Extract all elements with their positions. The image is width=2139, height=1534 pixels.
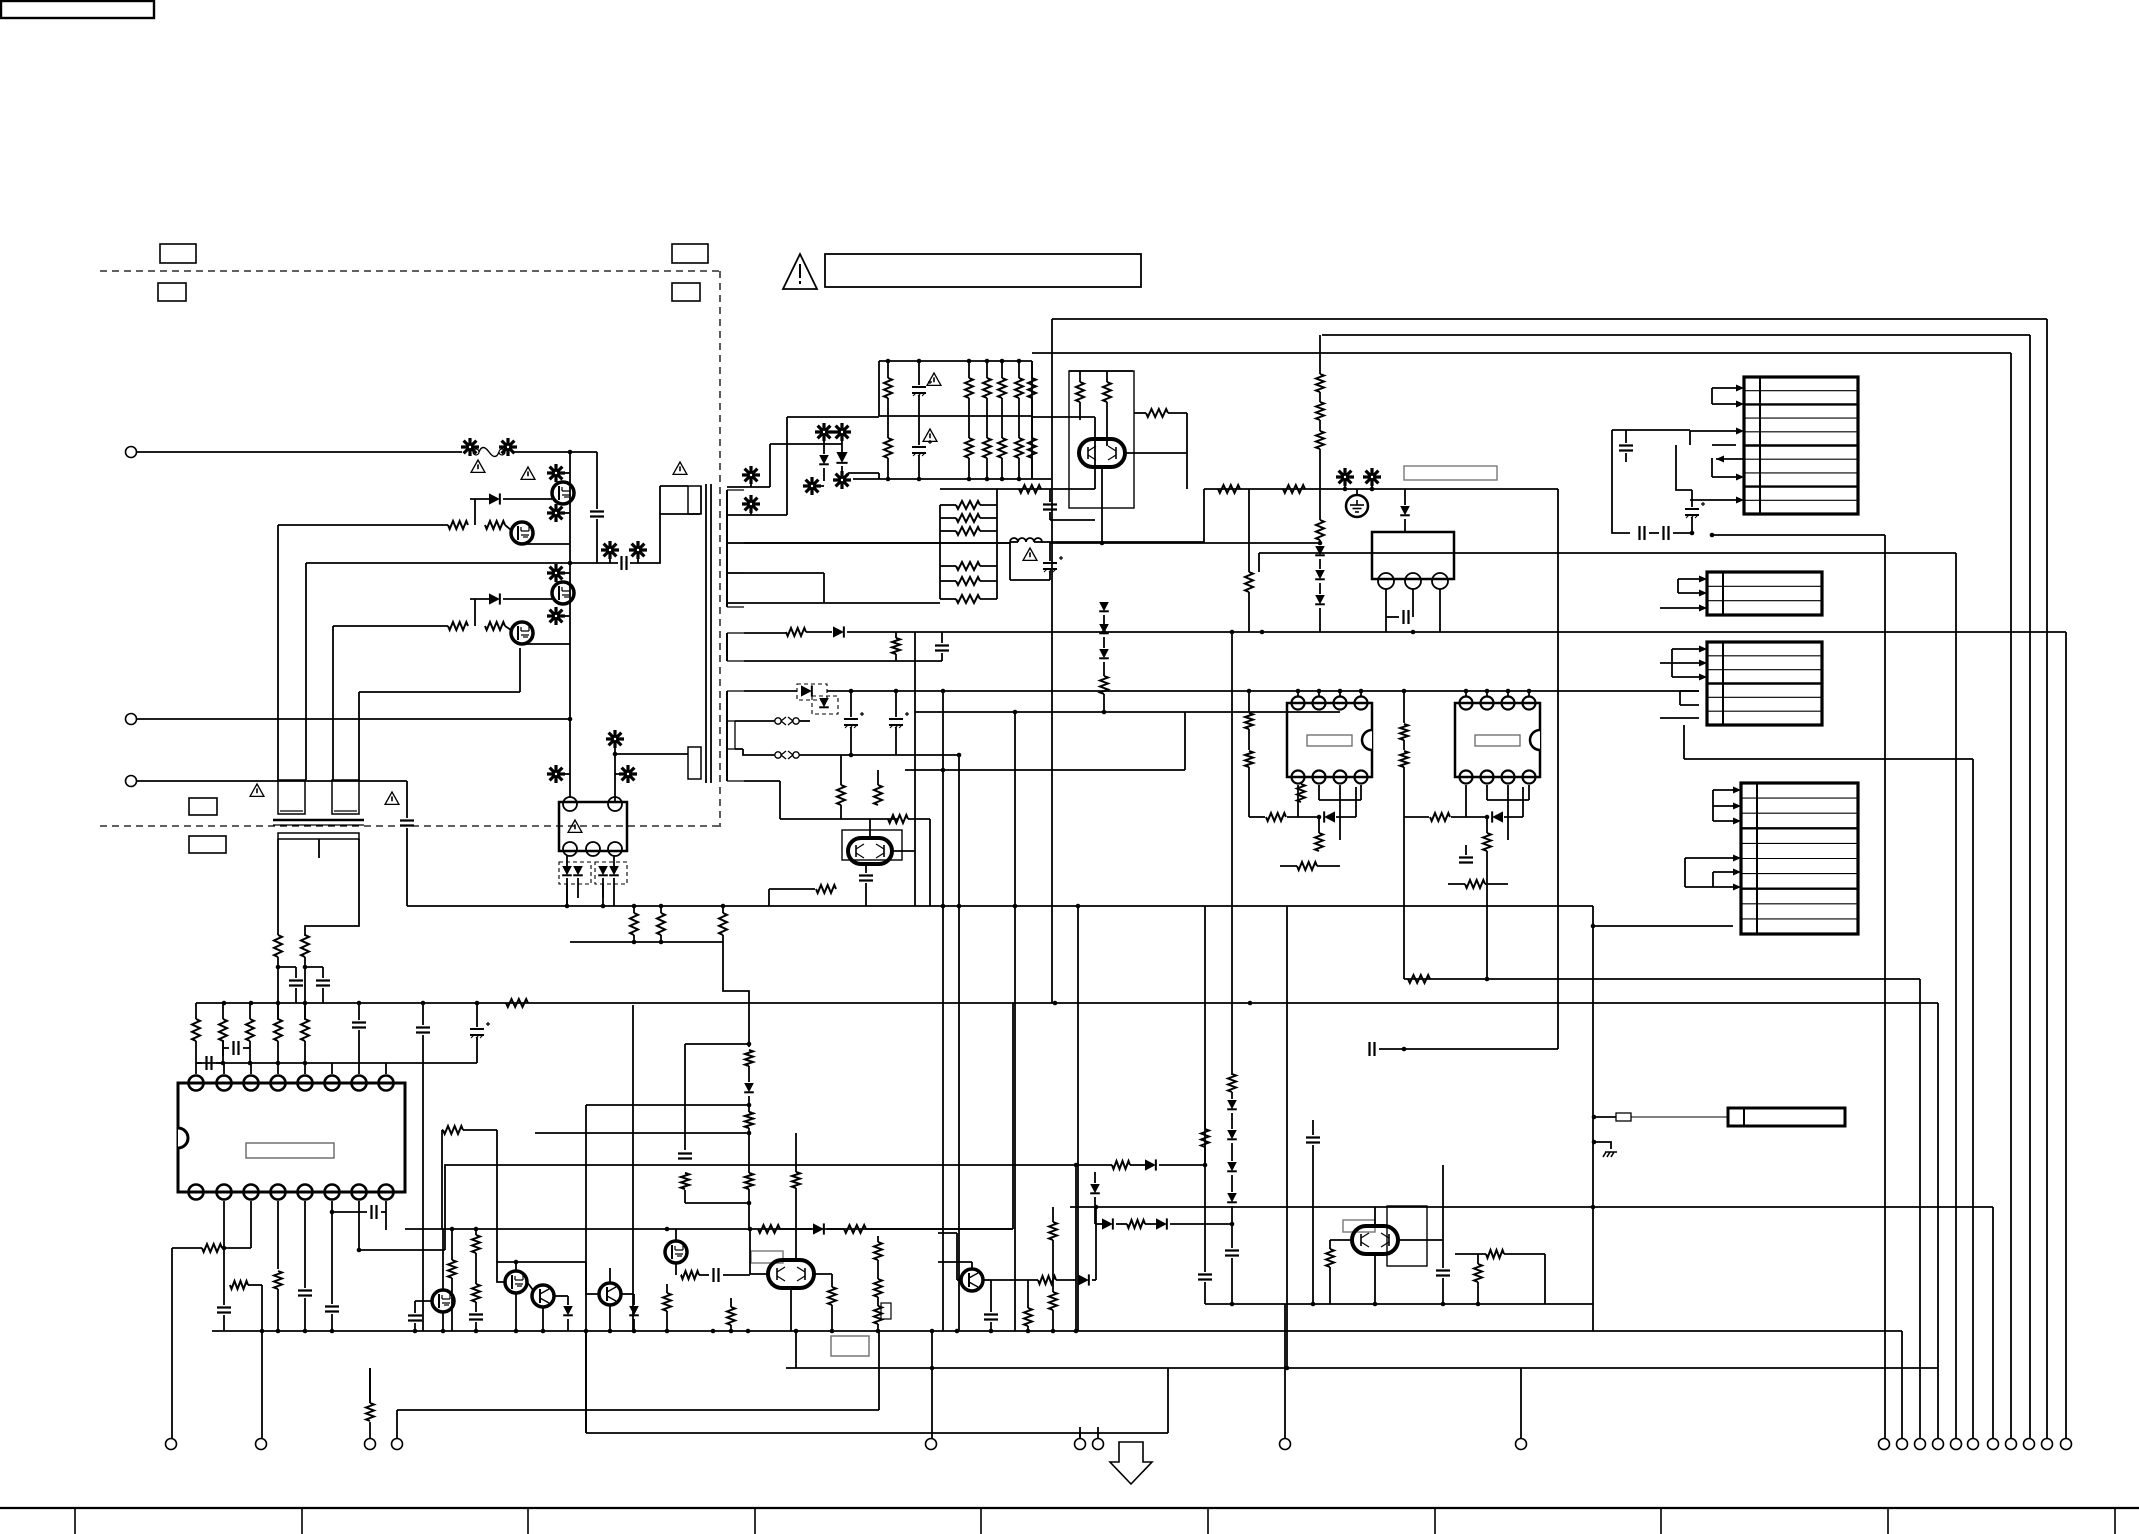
resistor Ra3 — [719, 906, 727, 942]
snub res C — [745, 1173, 753, 1189]
cap x476 — [469, 1302, 483, 1331]
wire right col x2011 — [2010, 353, 2012, 1438]
zener x1095 — [1090, 1172, 1100, 1224]
wire Q21 top — [497, 1130, 586, 1282]
wire y535 — [1710, 533, 1885, 538]
wire pin8 down — [385, 1212, 387, 1230]
star on tap y515 — [742, 495, 760, 515]
wire y1003 gap note — [195, 1002, 197, 1004]
title block box top-left — [1, 1, 154, 18]
bank resistor bottom 3 — [983, 416, 991, 479]
wire relay pin1 down — [1385, 589, 1387, 632]
chain x1104 res — [1100, 662, 1108, 712]
rail above IC y1003 — [196, 1001, 1938, 1006]
wire relay pin2 down — [1412, 589, 1414, 617]
res x1053 a — [1049, 1207, 1057, 1262]
footer tick 2 — [301, 1508, 303, 1534]
bank right edge — [1031, 361, 1033, 479]
res pair below a — [837, 755, 845, 805]
IC pin4 wire — [277, 1201, 279, 1269]
cap y1049 — [1370, 1042, 1381, 1056]
footer tick 6 — [1207, 1508, 1209, 1534]
res snub h — [1019, 485, 1041, 493]
wire sec top tap y543 — [727, 542, 1010, 544]
dual transistor Q10 — [848, 838, 892, 864]
vert x1078 — [1077, 906, 1079, 1331]
ladder resistor 5 — [940, 577, 997, 585]
wire Q10 top — [869, 819, 871, 838]
spark gap row top — [735, 717, 810, 725]
bottom terminal pin 6 — [1968, 1439, 1979, 1450]
diode row2 — [806, 626, 915, 637]
cap Q24 — [699, 1268, 750, 1282]
CN1 pin arrows — [1716, 385, 1744, 504]
gate diode D2 — [489, 593, 500, 604]
gate resistor R4 — [485, 622, 505, 630]
warning near T2 — [250, 784, 264, 796]
res on y489 b — [1283, 485, 1305, 493]
chain x1320 z1 — [1315, 540, 1325, 555]
ecap CN1 — [1685, 490, 1705, 533]
bank top rail — [879, 359, 1032, 364]
star on mid rail b — [629, 541, 647, 563]
res x1205 — [1201, 1120, 1209, 1165]
IC1 top pins — [189, 1076, 394, 1091]
zener pair box B — [595, 856, 627, 906]
npn Q26 — [961, 1269, 983, 1291]
wire Q30 bottom — [1374, 1254, 1376, 1304]
vert x1593 — [1592, 906, 1594, 1331]
res y1229 b — [827, 1225, 1013, 1233]
vert x1489 — [1486, 851, 1488, 979]
star right of bus — [615, 765, 637, 783]
gate resistor R2 — [485, 521, 505, 529]
bank resistor bottom 5 — [1015, 416, 1023, 479]
wire y1165 note — [1074, 1163, 1079, 1168]
wire y1390 low — [1901, 1331, 1903, 1438]
res h row PC2 b — [1448, 880, 1508, 888]
vert x1920 — [1919, 979, 1921, 1438]
PC1 top pin wires — [1298, 691, 1361, 696]
bottom terminal pin 4 — [1933, 1439, 1944, 1450]
ladder resistor 1 — [940, 501, 997, 509]
res x878 b — [874, 1260, 882, 1297]
PC10 pin2 — [608, 797, 622, 811]
snub wire A — [748, 1066, 750, 1082]
cap IC a — [352, 1003, 366, 1063]
snub res A — [745, 1050, 753, 1066]
PC2 top pin wires — [1466, 691, 1529, 696]
wire pin2 branch — [261, 1285, 263, 1438]
T1 secondary winding 1 — [727, 490, 744, 607]
ladder resistor 3 — [940, 527, 997, 535]
ecap C L1 — [1010, 542, 1063, 580]
bank resistor bottom 1 — [884, 416, 892, 479]
res Q30 b — [1474, 1254, 1482, 1304]
cap x1205 — [1198, 1275, 1212, 1305]
vert x1015 — [1014, 712, 1016, 1331]
IC pin stubs top — [196, 1063, 386, 1074]
sec row1 dashed diode — [797, 684, 827, 700]
chain x1104 z2 — [1099, 624, 1109, 633]
label box upper-right of boundary — [672, 244, 708, 263]
wire row1 — [744, 689, 1699, 694]
terminal earth — [126, 776, 137, 787]
wire y417 ext — [1032, 416, 1095, 418]
wire x930 from res — [929, 819, 931, 906]
cap Q26 — [983, 1280, 998, 1331]
ladder resistor 2 — [940, 514, 997, 522]
cap IC b — [416, 1003, 430, 1063]
relay pin1 — [1378, 573, 1394, 589]
snub wire bottom — [685, 1190, 749, 1203]
CN4 pin arrows — [1733, 787, 1741, 891]
star below DB — [833, 471, 851, 489]
wire Q50 top — [1069, 370, 1133, 372]
chain2 z3 — [1227, 1143, 1237, 1171]
res h x452 y1130 — [442, 1126, 497, 1229]
star pair A — [815, 423, 851, 444]
res ladder IC 5 — [301, 1003, 309, 1063]
footer tick 8 — [1660, 1508, 1662, 1534]
cap x1313 — [1306, 1120, 1320, 1143]
res Q24 gate — [676, 1263, 699, 1279]
cap Q20 — [408, 1301, 432, 1331]
relay RY1 box — [1372, 532, 1454, 579]
spark gap row bottom — [735, 749, 896, 759]
cap below IC a — [217, 1285, 231, 1331]
vert x1232 chain — [1231, 632, 1233, 1075]
zener relay — [1400, 489, 1410, 532]
vert x915 low — [914, 712, 916, 906]
res Q50 c — [1134, 409, 1187, 417]
terminal AC N — [126, 714, 137, 725]
vert x1287 — [1286, 906, 1288, 1368]
CN3 pin arrows — [1699, 646, 1707, 681]
caps h CN1 — [1640, 526, 1695, 540]
label box near T2 lower — [189, 836, 226, 853]
IC1 label — [246, 1143, 334, 1158]
wire T3 feed — [369, 1368, 371, 1403]
vert x1938 — [1937, 1003, 1939, 1438]
wire x1095 up — [1094, 417, 1096, 489]
chain x1104 z3 — [1099, 637, 1109, 658]
PC2 bottom wires — [1466, 785, 1529, 840]
ecap row1 a — [844, 691, 864, 755]
footer tick 1 — [74, 1508, 76, 1534]
wire gate feed Q2 — [278, 525, 511, 530]
res below PC2 v — [1483, 815, 1491, 851]
T1 primary lower tap — [613, 752, 688, 757]
wire Q23 down — [609, 1305, 611, 1331]
T1 primary winding lower — [688, 747, 701, 779]
IC pin7 wire — [357, 1201, 362, 1252]
zener pair box A — [559, 856, 591, 906]
ladder resistor 4 — [940, 562, 997, 570]
caution note box — [825, 254, 1141, 287]
wire earth terminal — [137, 780, 407, 782]
res y979 — [1408, 975, 1430, 983]
res on y1003 — [506, 999, 528, 1007]
vert x943 — [942, 691, 944, 1331]
cap Q10 — [859, 864, 873, 906]
PC10 pin5 — [608, 842, 622, 856]
bottom terminal pin 9 — [2024, 1439, 2035, 1450]
mosfet Q2 — [511, 522, 533, 544]
star relay a — [1336, 468, 1354, 489]
bottom terminal pin 5 — [1951, 1439, 1962, 1450]
res ladder IC 2 — [219, 1003, 227, 1063]
star at T1 tap — [606, 730, 624, 754]
rail y489 left — [940, 488, 1095, 490]
bank ecap top — [912, 361, 932, 416]
chain x1320 res — [1316, 489, 1324, 540]
inductor L1 — [1010, 538, 1050, 542]
down arrow symbol — [1110, 1442, 1152, 1484]
rail mid switch — [306, 561, 618, 566]
bank bottom rail — [853, 477, 1051, 482]
mosfet Q1 — [552, 482, 574, 504]
mosfet Q4 — [511, 622, 533, 644]
rail y1229 — [405, 1227, 1013, 1232]
wire label drop — [795, 1331, 797, 1368]
battery holder BT1 — [1728, 1108, 1845, 1126]
res Q24 down — [663, 1284, 671, 1331]
terminal T4 — [392, 1439, 403, 1450]
terminal T2 — [256, 1439, 267, 1450]
wire left feed 3 — [332, 626, 334, 780]
cap row2 — [896, 632, 949, 661]
dual transistor Q30 — [1352, 1226, 1398, 1254]
star below DA — [803, 477, 824, 495]
chain x1320 tail — [1319, 608, 1321, 632]
CN2 pin wires — [1660, 579, 1699, 608]
T1 secondary winding 2 — [727, 633, 744, 661]
cap h below IC — [332, 1205, 386, 1219]
res h row PC1 b — [1280, 862, 1340, 870]
IC pin8 wire — [385, 1201, 387, 1212]
res Q30 h — [1455, 1250, 1545, 1304]
bank ecap bottom — [912, 416, 932, 479]
star on mid rail a — [601, 541, 619, 563]
jumper star right of fuse — [499, 438, 517, 456]
wire Q50 link — [1125, 452, 1187, 454]
star below Q1 — [547, 504, 570, 522]
bus drain vertical — [569, 452, 571, 719]
T2 primary winding A — [278, 780, 305, 814]
wire Q30 top — [1374, 1207, 1376, 1226]
wire pin7 right — [359, 1249, 445, 1251]
res diode row a — [1076, 1159, 1207, 1170]
wire Q26 col — [938, 1262, 972, 1269]
relay label box — [1404, 466, 1497, 480]
bottom terminal pin 2 — [1897, 1439, 1908, 1450]
vert x423 low — [422, 1063, 424, 1331]
gate resistor R3 — [448, 622, 468, 630]
wire right col x2030 — [2029, 335, 2031, 1438]
res x878 a — [874, 1236, 882, 1260]
wire D1 branch — [474, 499, 476, 525]
res pair below b — [874, 770, 882, 805]
label box near T2 upper — [189, 798, 217, 815]
CN4 bottom feed — [1591, 924, 1733, 929]
terminal T1 — [166, 1439, 177, 1450]
bus continue to opto — [569, 719, 571, 797]
vert x1956 — [1955, 553, 1957, 1438]
bottom terminal pin 7 — [1988, 1439, 1999, 1450]
wire y1427 — [586, 1331, 1168, 1438]
terminal mid1 — [926, 1331, 937, 1450]
wire Q25 base — [750, 1229, 768, 1274]
warning mark above Q area — [521, 467, 535, 479]
sub rail y942 — [570, 940, 723, 945]
vert x634 mid — [633, 941, 635, 943]
chain2 z2 — [1227, 1113, 1237, 1139]
res below PC1 v — [1315, 815, 1323, 851]
res top feed rail — [519, 1002, 521, 1004]
cross wire y632 — [915, 630, 2066, 635]
npn Q22 — [532, 1285, 554, 1307]
res x1249 — [1245, 489, 1253, 632]
T1 core — [706, 484, 711, 783]
resistor R std2 — [301, 935, 309, 957]
diode DB — [836, 444, 847, 473]
chain x1320 upper r2 — [1316, 392, 1324, 420]
res h PC1 — [1249, 787, 1356, 823]
mosfet Q20 — [432, 1229, 454, 1312]
zener DA — [819, 444, 829, 481]
chain2 cap — [1225, 1224, 1239, 1304]
T2 sec left lead — [277, 839, 279, 935]
wire Q26 base — [938, 1233, 961, 1280]
wire left horiz to Q4 row — [359, 648, 520, 692]
chain x1320 upper tail — [1319, 449, 1321, 489]
resistor R std1 — [274, 935, 282, 957]
bottom terminal pin 11 — [2061, 1439, 2072, 1450]
bank left edge — [878, 361, 880, 416]
vert x1052 — [1051, 319, 1053, 424]
chain x1320 z2 — [1315, 559, 1325, 579]
resistor Ra1 — [630, 906, 638, 942]
resistor ladder left rail — [939, 505, 941, 599]
PC1 bottom wires — [1298, 785, 1361, 840]
gate resistor R1 — [448, 521, 468, 529]
warning in PC10 — [568, 820, 582, 832]
earth symbol — [1346, 489, 1368, 517]
wire row3 bottom tap — [744, 781, 780, 819]
cap h IC small — [223, 1040, 250, 1056]
PC10 pin4 — [586, 842, 600, 856]
wire row3 bot to rail — [780, 818, 841, 820]
cap Q30 — [1436, 1271, 1450, 1305]
star below Q3 — [547, 607, 570, 625]
T1 secondary winding 3 — [727, 691, 744, 781]
vert x959 — [958, 755, 960, 1331]
wire Q10 right — [892, 850, 915, 852]
label box lower-left of boundary — [158, 283, 186, 301]
gate diode D1 — [489, 493, 500, 504]
IC pin6 wire — [330, 1201, 335, 1304]
vert x570 opto tail — [566, 884, 568, 906]
photocoupler PC2 — [1455, 697, 1540, 784]
jumper star left of fuse — [461, 438, 479, 456]
long wire y319 — [1052, 318, 2047, 320]
label box lower-right of boundary — [672, 283, 700, 301]
snub res D — [681, 1173, 689, 1189]
vert x1973 — [1972, 759, 1974, 1438]
res above T3 — [366, 1368, 374, 1421]
ladder resistor 6 — [940, 595, 997, 603]
res below Q25 — [727, 1298, 735, 1331]
vert x1076 — [1075, 1165, 1077, 1331]
wire left terminal drop — [171, 1248, 173, 1438]
wire left feed 1 — [277, 525, 279, 780]
connector CN3 — [1707, 642, 1822, 725]
wire to primary top — [630, 514, 700, 563]
wire y770 rail — [905, 712, 1185, 772]
snub res B — [745, 1112, 753, 1128]
gnd stub — [1592, 1140, 1611, 1149]
vert x586 — [585, 1105, 587, 1433]
vert x1404 — [1400, 691, 1408, 979]
ecap IC — [470, 1003, 490, 1063]
wire jog y942 — [723, 942, 749, 1047]
footer tick 3 — [527, 1508, 529, 1534]
vert x1313 — [1312, 1145, 1314, 1304]
res Q10 base — [769, 885, 836, 906]
res x452 — [448, 1229, 456, 1331]
wire tap y543 right — [1049, 542, 1051, 544]
res x476 b — [472, 1253, 480, 1302]
res below PC1 — [1297, 784, 1305, 802]
Q30 outline box — [1387, 1206, 1427, 1266]
wire y1304 — [1205, 1302, 1593, 1307]
vert x603 opto tail — [602, 884, 604, 906]
vert x1013 — [1012, 1003, 1014, 1229]
vert x1052 low — [1051, 424, 1053, 1003]
cap near CN1 — [1619, 430, 1633, 462]
wire Q50 right — [1186, 413, 1188, 489]
wire y632 left stub — [914, 632, 916, 712]
res row2 — [786, 628, 806, 636]
wire y543 to right — [1050, 541, 1322, 546]
bottom terminal pin 8 — [2006, 1439, 2017, 1450]
wire gate feed Q4 — [333, 626, 511, 630]
connector CN1 — [1744, 377, 1858, 514]
chain x1320 upper r3 — [1316, 420, 1324, 449]
wire T1 tap y515 — [727, 514, 787, 516]
vert x1259 — [1258, 553, 1260, 572]
CN2 pin arrows — [1699, 576, 1707, 612]
dashed isolation boundary top — [100, 270, 720, 272]
chain x1104 z1 — [1099, 602, 1109, 632]
bank resistor top 5 — [1015, 361, 1023, 416]
T1 primary top tap — [660, 486, 688, 514]
connector CN2 — [1707, 572, 1822, 615]
wire left feed 4 — [358, 692, 360, 780]
bank resistor bottom 4 — [998, 416, 1006, 479]
footer tick 9 — [1887, 1508, 1889, 1534]
res h PC2 — [1404, 787, 1523, 823]
mosfet Q21 — [505, 1262, 527, 1293]
wire row2 — [744, 632, 786, 634]
res Q50 a — [1076, 371, 1084, 420]
wire CN1 aux2 — [1612, 430, 1630, 533]
long wire y353 — [1032, 352, 2011, 354]
res h below IC 2 — [224, 1281, 262, 1289]
snub cap — [678, 1150, 692, 1161]
rail y489 right — [1204, 487, 1558, 492]
